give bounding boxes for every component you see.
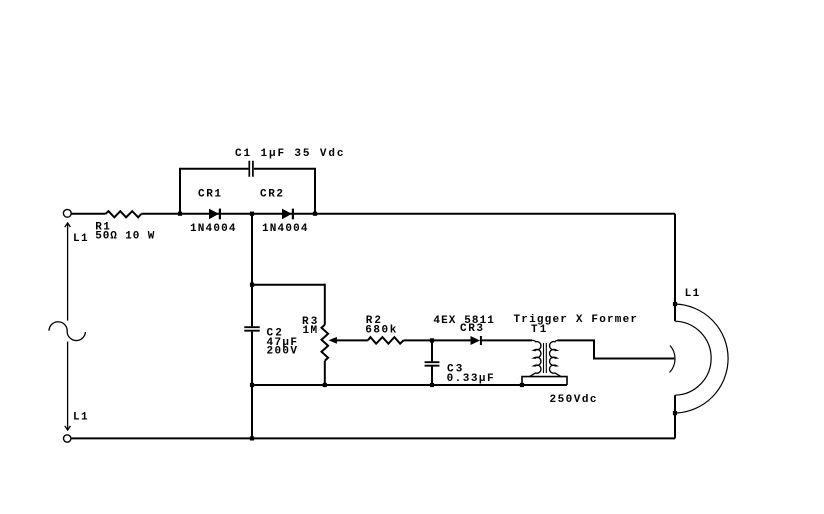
node lamp bottom bbox=[673, 411, 677, 415]
svg-text:1N4004: 1N4004 bbox=[262, 223, 308, 235]
wire C1 top right segment bbox=[254, 168, 316, 170]
wire top main from terminal to R1 bbox=[71, 213, 105, 215]
wire mid top rail bbox=[252, 284, 325, 286]
wire mid bottom rail bbox=[252, 384, 567, 386]
arrow up at top terminal bbox=[65, 223, 71, 227]
resistor R1 bbox=[106, 211, 142, 217]
wire right vertical main upper bbox=[674, 214, 676, 322]
lamp L1 inner arc bbox=[675, 321, 711, 395]
svg-text:L1: L1 bbox=[73, 412, 88, 424]
terminal top-left bbox=[63, 209, 71, 217]
wire R3 bottom lead bbox=[324, 361, 326, 385]
wire right vertical main lower bbox=[674, 395, 676, 438]
node x=252 mid-top rail bbox=[250, 283, 254, 287]
svg-text:CR3: CR3 bbox=[460, 323, 483, 335]
wire AC source shaft upper bbox=[67, 223, 69, 321]
wire center branch upper (x=252) bbox=[251, 214, 253, 327]
transformer T1 core bbox=[544, 343, 547, 373]
svg-text:T1: T1 bbox=[531, 324, 547, 336]
diode CR1 bbox=[209, 209, 219, 220]
trigger electrode arc bbox=[670, 346, 675, 373]
svg-text:680k: 680k bbox=[365, 325, 396, 337]
wire AC source shaft lower bbox=[67, 342, 69, 430]
AC sine symbol bbox=[49, 322, 85, 341]
diode CR2 bbox=[282, 209, 292, 220]
node lamp top bbox=[673, 302, 677, 306]
wire top main from R1 to lamp branch bbox=[141, 213, 675, 215]
arrow down at bottom terminal bbox=[65, 426, 71, 430]
node T1 pedestal left on rail bbox=[520, 383, 524, 387]
wire R2 to CR3 bbox=[404, 339, 471, 341]
transformer T1 primary winding bbox=[530, 340, 541, 376]
node x=252 mid-bottom rail bbox=[250, 383, 254, 387]
capacitor C2 bbox=[244, 327, 259, 331]
transformer T1 secondary winding bbox=[550, 340, 561, 376]
svg-text:1M: 1M bbox=[303, 325, 318, 337]
node at x=315 bbox=[313, 212, 317, 216]
node R3 bottom bbox=[323, 383, 327, 387]
svg-text:CR1: CR1 bbox=[198, 188, 221, 200]
transformer T1 pedestal base bbox=[522, 377, 567, 385]
wire C1 left riser bbox=[179, 169, 181, 214]
resistor R2 bbox=[368, 337, 404, 344]
wire R3 top lead bbox=[324, 284, 326, 325]
capacitor C1 bbox=[249, 161, 253, 177]
wire T1 secondary out bbox=[558, 339, 675, 358]
wire C1 right riser bbox=[314, 169, 316, 214]
node at x=180 bbox=[178, 212, 182, 216]
svg-text:200V: 200V bbox=[267, 346, 298, 358]
node C3 bottom bbox=[430, 383, 434, 387]
transformer T1 primary cusp wedges bbox=[531, 349, 536, 351]
terminal bottom-left bbox=[63, 435, 70, 442]
node x=252 bottom main bbox=[250, 436, 254, 440]
svg-text:L1: L1 bbox=[73, 233, 88, 245]
wiper arrow of R3 bbox=[329, 337, 337, 344]
svg-text:50Ω 10 W: 50Ω 10 W bbox=[95, 230, 154, 242]
svg-text:1N4004: 1N4004 bbox=[190, 223, 236, 235]
transformer T1 secondary cusp wedges bbox=[555, 349, 560, 351]
resistor R3 (pot) bbox=[322, 325, 329, 361]
capacitor C3 bbox=[431, 340, 433, 361]
svg-text:L1: L1 bbox=[685, 288, 700, 300]
wire center branch lower (x=252) bbox=[251, 332, 253, 439]
svg-text:CR2: CR2 bbox=[260, 188, 283, 200]
node C3 top bbox=[430, 338, 434, 342]
diode CR3 bbox=[471, 336, 481, 345]
node at x=252 top bbox=[250, 212, 254, 216]
lamp L1 outer envelope arc bbox=[675, 304, 728, 413]
wire CR3 to T1 bbox=[481, 339, 532, 341]
wire C1 top left segment bbox=[179, 168, 248, 170]
wire bottom main bbox=[71, 437, 675, 439]
